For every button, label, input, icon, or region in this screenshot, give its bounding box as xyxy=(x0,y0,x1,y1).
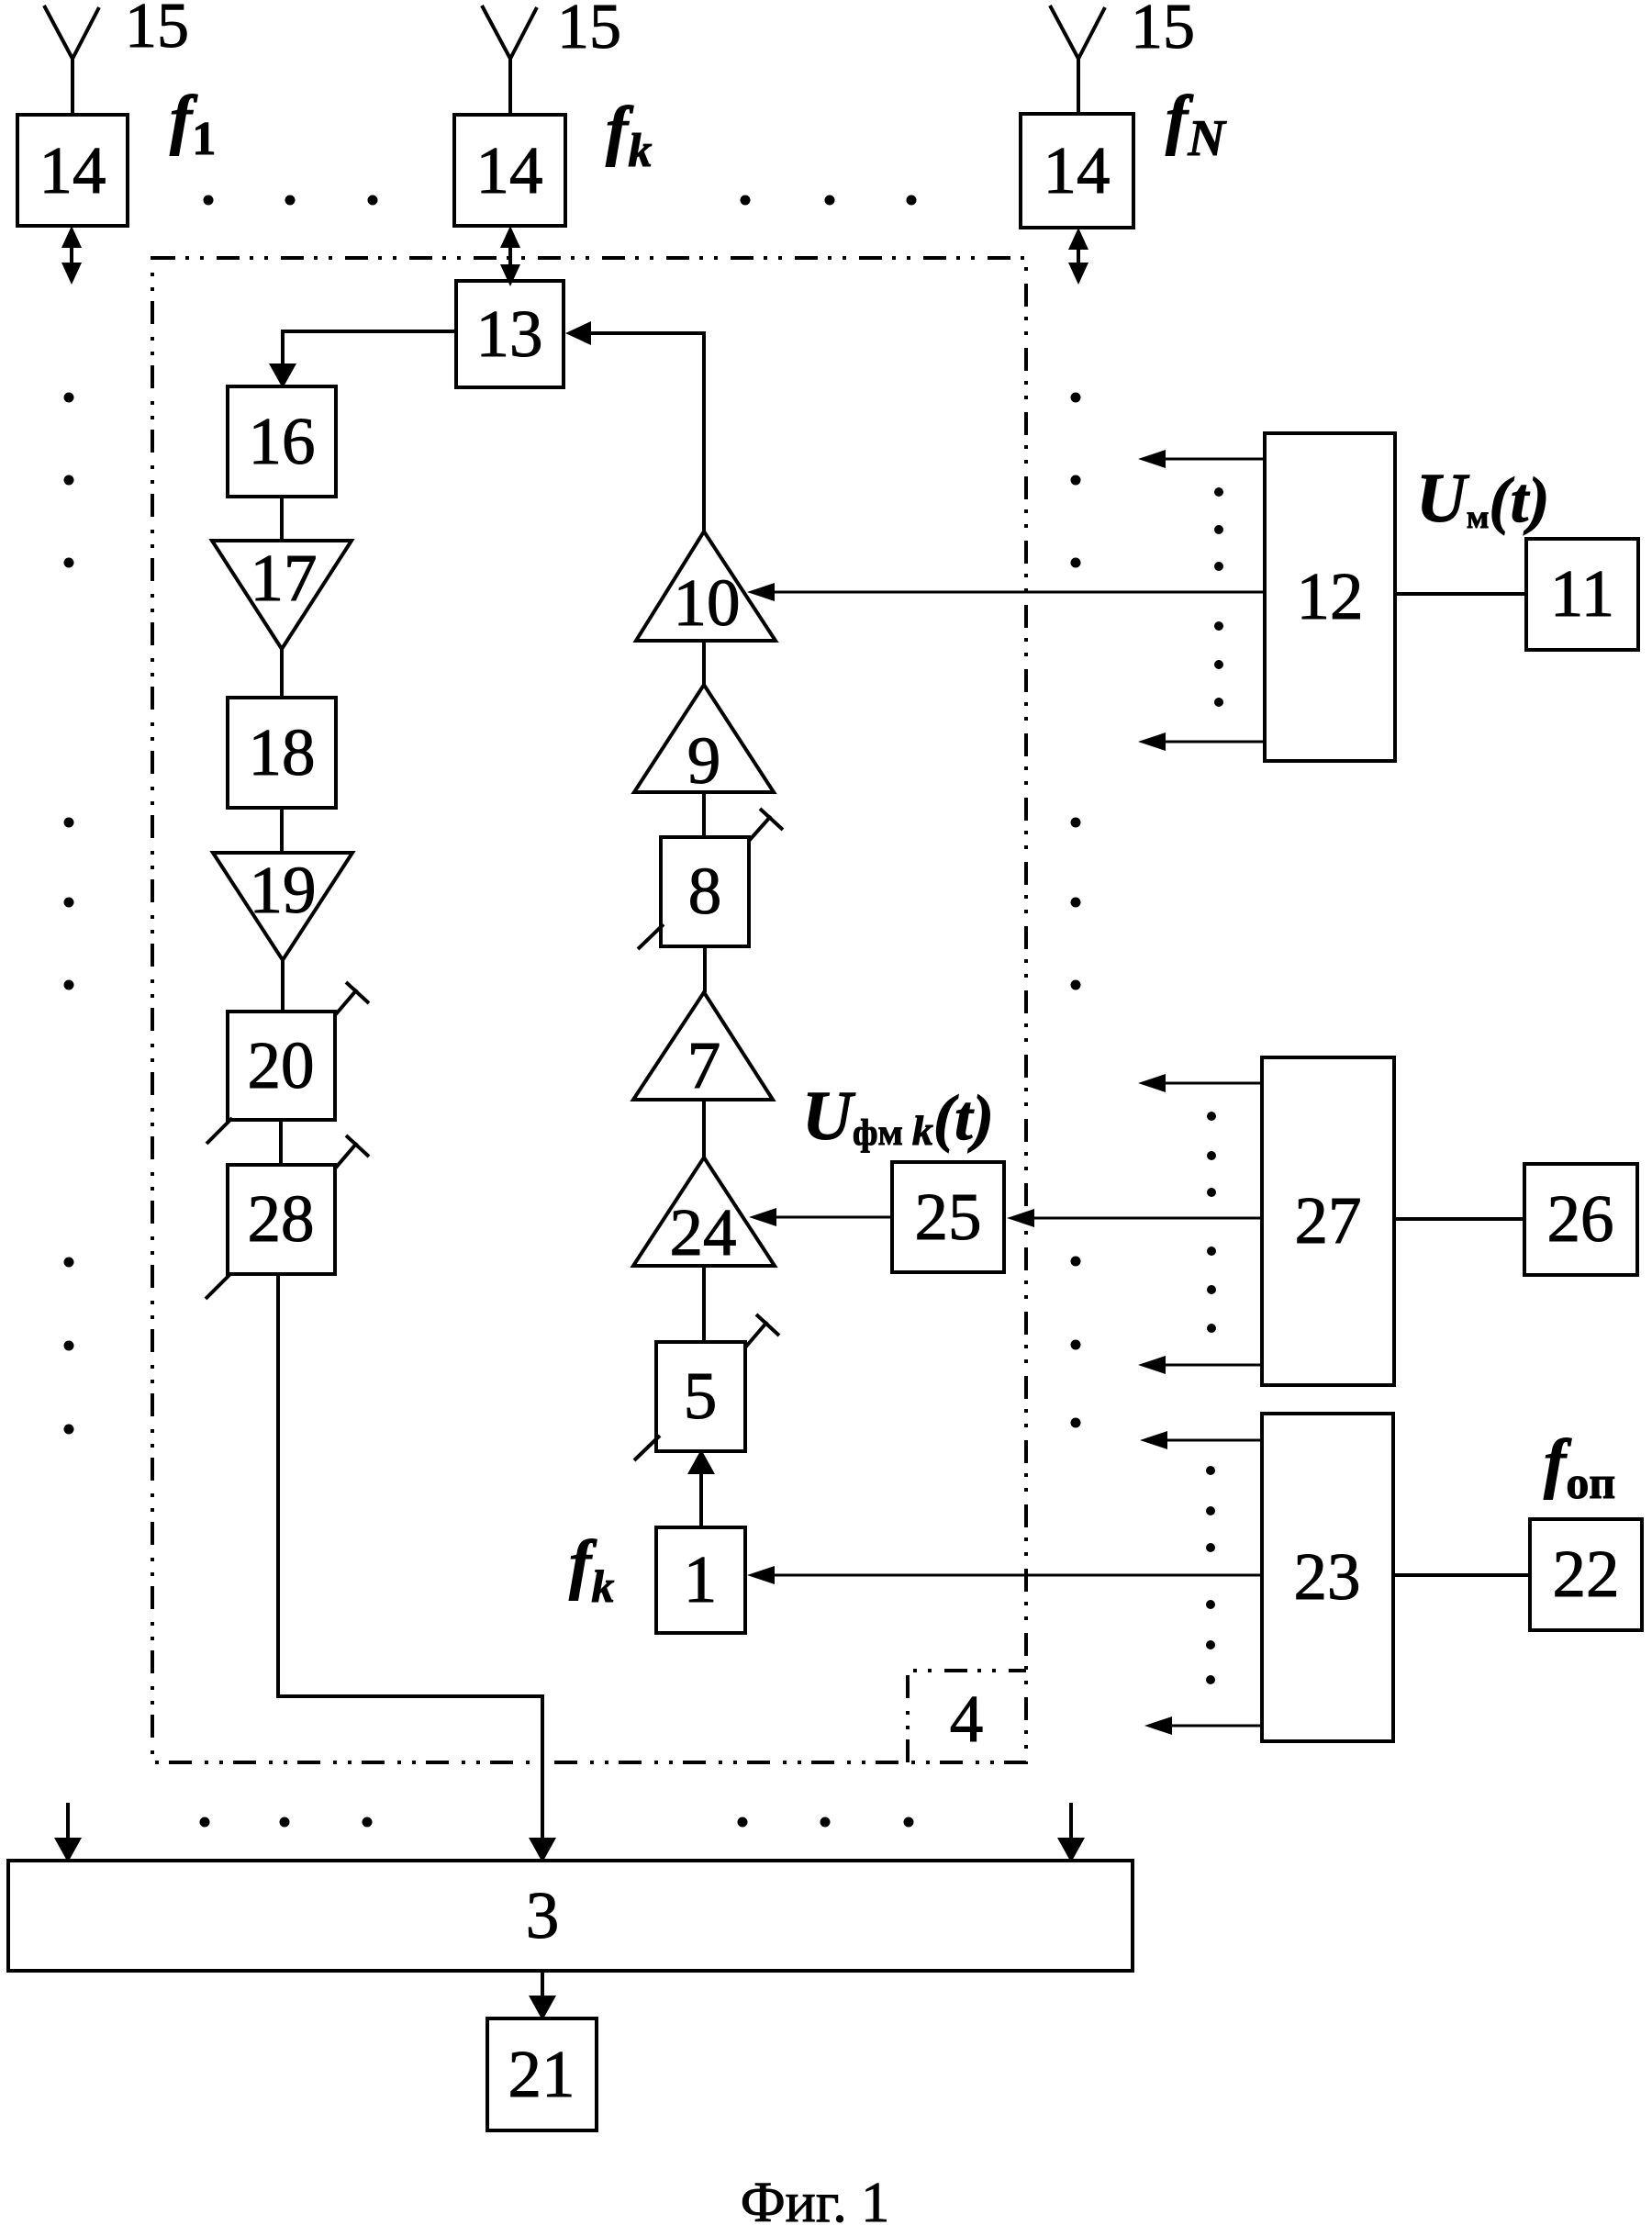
svg-text:21: 21 xyxy=(508,2037,575,2111)
svg-text:18: 18 xyxy=(249,715,316,789)
svg-text:14: 14 xyxy=(476,133,543,207)
svg-text:20: 20 xyxy=(248,1028,315,1102)
svg-text:9: 9 xyxy=(687,723,721,798)
svg-text:16: 16 xyxy=(249,404,316,478)
svg-text:26: 26 xyxy=(1547,1181,1614,1256)
svg-text:15: 15 xyxy=(1131,0,1195,62)
svg-text:12: 12 xyxy=(1297,559,1364,633)
svg-text:1: 1 xyxy=(684,1542,718,1616)
svg-text:25: 25 xyxy=(915,1180,982,1254)
svg-text:3: 3 xyxy=(526,1878,560,1952)
svg-text:19: 19 xyxy=(250,853,317,927)
svg-text:24: 24 xyxy=(670,1195,737,1269)
svg-text:23: 23 xyxy=(1294,1539,1361,1614)
svg-text:13: 13 xyxy=(476,296,543,371)
svg-text:4: 4 xyxy=(950,1682,984,1756)
svg-text:7: 7 xyxy=(687,1028,721,1102)
svg-text:Фиг. 1: Фиг. 1 xyxy=(741,2172,890,2225)
svg-text:15: 15 xyxy=(557,0,621,62)
svg-text:5: 5 xyxy=(684,1358,718,1433)
svg-text:11: 11 xyxy=(1550,556,1614,631)
svg-text:14: 14 xyxy=(39,133,106,207)
svg-text:17: 17 xyxy=(251,541,318,615)
svg-text:28: 28 xyxy=(248,1181,315,1256)
svg-text:8: 8 xyxy=(688,854,722,928)
svg-text:10: 10 xyxy=(674,565,741,640)
svg-text:22: 22 xyxy=(1553,1537,1620,1611)
svg-text:14: 14 xyxy=(1044,133,1111,207)
svg-text:15: 15 xyxy=(125,0,189,61)
svg-text:27: 27 xyxy=(1295,1183,1362,1258)
